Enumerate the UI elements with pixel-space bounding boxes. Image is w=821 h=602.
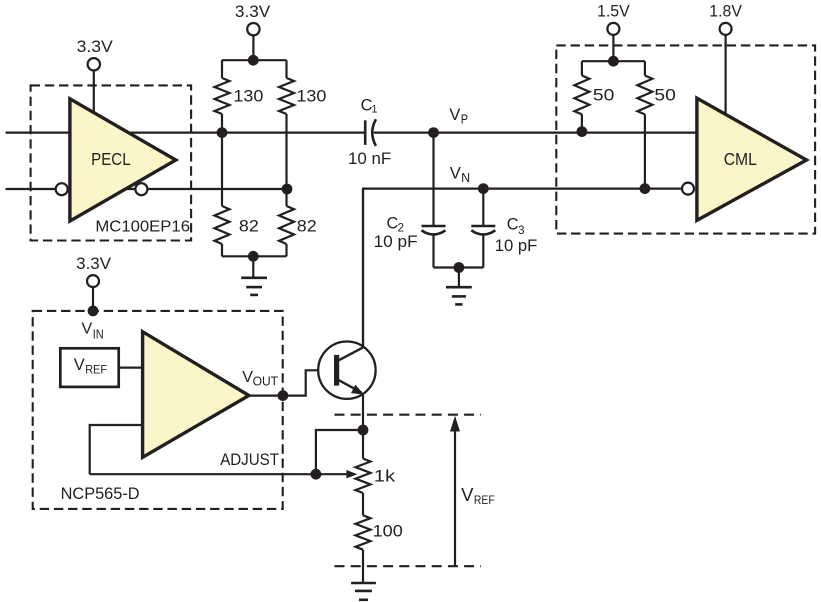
- svg-text:10 pF: 10 pF: [374, 233, 418, 251]
- svg-text:3: 3: [518, 225, 524, 237]
- svg-text:3.3V: 3.3V: [235, 2, 271, 21]
- svg-text:N: N: [461, 171, 470, 185]
- svg-text:1: 1: [371, 104, 377, 116]
- svg-text:V: V: [82, 321, 93, 338]
- svg-text:NCP565-D: NCP565-D: [61, 485, 140, 503]
- svg-text:130: 130: [233, 88, 263, 106]
- svg-text:10 nF: 10 nF: [348, 150, 391, 168]
- svg-text:1.5V: 1.5V: [597, 2, 630, 21]
- svg-text:1.8V: 1.8V: [709, 2, 742, 21]
- svg-text:V: V: [450, 164, 461, 182]
- svg-text:82: 82: [239, 217, 259, 235]
- svg-text:PECL: PECL: [91, 149, 131, 169]
- svg-text:50: 50: [654, 87, 676, 105]
- svg-text:1k: 1k: [374, 467, 396, 486]
- svg-text:C: C: [507, 216, 519, 234]
- svg-text:ADJUST: ADJUST: [220, 451, 279, 469]
- svg-text:P: P: [461, 113, 468, 127]
- svg-text:100: 100: [373, 522, 403, 540]
- svg-text:82: 82: [297, 217, 317, 235]
- svg-text:V: V: [74, 356, 85, 374]
- svg-text:IN: IN: [93, 327, 104, 342]
- svg-text:10 pF: 10 pF: [495, 237, 538, 255]
- svg-text:3.3V: 3.3V: [77, 37, 114, 56]
- svg-text:130: 130: [296, 88, 326, 106]
- svg-text:CML: CML: [724, 149, 758, 169]
- svg-text:REF: REF: [85, 363, 107, 377]
- svg-text:V: V: [461, 484, 474, 505]
- svg-text:REF: REF: [474, 495, 495, 507]
- svg-text:OUT: OUT: [253, 373, 279, 388]
- svg-text:50: 50: [593, 87, 615, 105]
- svg-text:MC100EP16: MC100EP16: [95, 219, 190, 236]
- svg-text:3.3V: 3.3V: [76, 254, 112, 273]
- svg-text:V: V: [449, 106, 460, 124]
